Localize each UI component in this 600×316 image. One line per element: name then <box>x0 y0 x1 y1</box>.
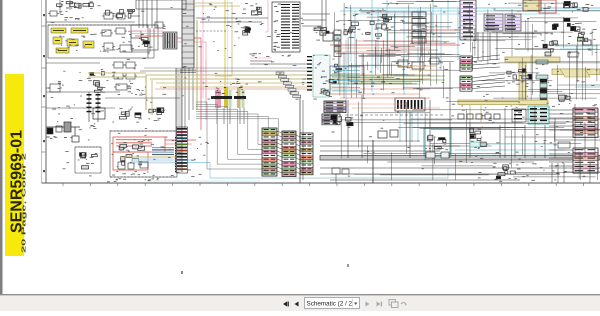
red wires J right <box>165 140 196 144</box>
orange bits <box>398 66 442 70</box>
dashed box J <box>110 131 177 177</box>
dashed box B <box>48 25 148 58</box>
pin row T4 <box>485 25 516 30</box>
stack block P4 <box>0 0 1 1</box>
toolbar next-view button <box>401 303 407 306</box>
dark bundle wires <box>140 68 330 71</box>
grey bus Y <box>320 156 600 161</box>
comps Z5 <box>331 115 398 138</box>
battery chain G <box>46 122 80 142</box>
scatter text right-mid <box>462 102 598 180</box>
cyan top bus <box>340 8 600 14</box>
toolbar last-page button <box>377 302 383 307</box>
column Q <box>177 127 188 173</box>
cluster Z4 <box>493 163 519 181</box>
stack W3 <box>460 56 472 71</box>
window left frame <box>0 0 3 295</box>
box C2 <box>131 25 158 50</box>
dash link <box>196 30 226 32</box>
left extra marks <box>51 96 174 177</box>
vert x300 <box>300 98 303 183</box>
cascade N2 <box>276 72 301 98</box>
right edge wires <box>555 130 600 172</box>
box H3 <box>89 108 105 128</box>
tan bus V2 <box>552 69 600 77</box>
misc S comps <box>343 20 441 69</box>
mesh S2 <box>359 40 415 76</box>
comp row X2 <box>458 114 500 119</box>
purple block ZP2 <box>322 114 340 125</box>
footer mark 2 <box>347 264 349 267</box>
teal bits bus <box>470 142 570 148</box>
khaki block U1 <box>523 0 541 11</box>
fan W5 <box>472 55 505 89</box>
purple block T3 <box>505 14 521 31</box>
pink pair left of N <box>250 53 272 61</box>
scatter text left <box>51 5 173 129</box>
cyan wire R <box>150 168 448 181</box>
teal box X1 <box>512 106 549 124</box>
striped stack Z2 <box>573 148 598 173</box>
pink vertical c1 <box>205 60 207 120</box>
pink vertical c2 <box>265 0 268 32</box>
tan bus X <box>458 100 548 122</box>
wires Z6 <box>549 110 573 166</box>
stack wires <box>277 131 282 173</box>
verticals to bus <box>348 62 545 158</box>
labels under J <box>107 178 158 182</box>
pink wires to barrel <box>130 31 163 36</box>
toolbar prev-page button <box>295 302 299 307</box>
vertical chain H2 <box>96 92 101 122</box>
comps W7 <box>558 95 572 105</box>
svg-text:20 Page, Color 2: 20 Page, Color 2 <box>21 153 27 253</box>
border letters <box>43 14 45 172</box>
verticals W6 <box>478 32 497 60</box>
toolbar next-page button <box>366 302 370 307</box>
page border left <box>42 0 47 183</box>
ladder drop wires <box>185 68 193 128</box>
pin rows T1b <box>463 2 473 37</box>
mesh S <box>334 2 460 99</box>
footer mark 1 <box>181 271 183 274</box>
cluster C relay row <box>106 9 145 18</box>
page border bottom <box>42 183 600 186</box>
left extra wires <box>46 0 180 108</box>
toolbar background <box>0 294 600 311</box>
labels row center <box>216 79 241 88</box>
label text 20 Page Color 2 <box>21 153 27 253</box>
tan bus bundle <box>88 73 430 115</box>
cyan rows J3 <box>132 159 172 164</box>
speckle dense band <box>332 104 591 179</box>
cyan drops <box>400 112 418 142</box>
pin column N3 <box>307 55 330 97</box>
cluster N5 <box>320 64 345 97</box>
comps UR <box>568 29 591 57</box>
olive vertical <box>196 20 198 110</box>
component group B2 <box>100 28 144 52</box>
teal blocks <box>536 60 548 79</box>
purple block ZP1 <box>324 101 346 113</box>
toolbar first-page button <box>283 302 289 307</box>
cluster U3 <box>563 1 589 12</box>
comps J low <box>116 162 148 175</box>
tan row J <box>120 156 175 158</box>
bar group drops <box>217 108 244 124</box>
dark pin column J <box>175 137 180 172</box>
wire fan P <box>196 102 278 169</box>
cyan wires J4 <box>172 160 210 178</box>
vertical x373 <box>372 140 374 183</box>
red wire from barrel <box>177 38 206 130</box>
dashed line AB2 <box>345 114 445 116</box>
component column D <box>112 62 137 92</box>
scatter text top <box>332 0 597 101</box>
bus drops right <box>552 163 590 183</box>
red parallel wire <box>155 88 430 90</box>
component F <box>46 81 62 92</box>
tan vertical band <box>519 62 526 105</box>
top verticals <box>136 0 186 28</box>
cluster W1 <box>507 68 532 84</box>
toolbar page dropdown <box>305 298 360 309</box>
vertical chain H1 <box>87 92 92 122</box>
green bus S <box>330 76 445 84</box>
stack right wires <box>296 135 300 174</box>
cyan right wires <box>555 46 600 87</box>
cyan verticals <box>346 0 458 108</box>
cluster W2 <box>541 40 559 56</box>
toolbar prev-view button <box>389 300 398 308</box>
pink vertical c3 <box>202 0 204 98</box>
purple table T1 <box>460 0 476 40</box>
tan bus V1 <box>505 57 560 62</box>
svg-text:Schematic (2 / 2: Schematic (2 / 2 <box>307 300 353 307</box>
cluster E <box>87 72 105 93</box>
wire row F2 <box>46 89 166 95</box>
mesh R1 <box>461 3 600 100</box>
N side wires <box>302 14 330 26</box>
cyan pin cluster S3 <box>330 66 392 94</box>
cluster I1 <box>119 108 141 119</box>
wire pair center <box>180 70 196 73</box>
yellow wire <box>225 0 228 108</box>
horiz wires Y2 <box>320 141 600 180</box>
barrel connector <box>163 32 177 49</box>
wire across N <box>250 63 310 65</box>
top-center labels <box>196 3 268 27</box>
top tan wires <box>193 3 240 6</box>
yellow media label band <box>5 74 24 256</box>
left verticals ext <box>131 28 154 58</box>
cluster X3 <box>470 128 487 148</box>
colored bar group O2 <box>234 87 246 108</box>
connector table N <box>272 2 300 52</box>
connector cluster A1 <box>57 1 94 8</box>
component near top <box>153 22 165 28</box>
tan wire v1 <box>215 2 232 76</box>
stack block P3 <box>300 133 313 175</box>
striped stack Z1 <box>573 108 598 137</box>
comps under bus <box>332 168 349 183</box>
grey band below ladder <box>176 68 182 172</box>
label text SENR5969-01 <box>9 130 26 233</box>
stack W4 <box>460 76 472 91</box>
red box U2 <box>539 0 556 13</box>
red module J1a <box>113 137 165 152</box>
small dashed box G2 <box>75 147 101 173</box>
top-center comps <box>251 7 261 15</box>
purple block T2 <box>484 14 503 31</box>
teal pin column <box>540 78 547 103</box>
colored bar group O1 <box>211 87 232 108</box>
cluster I2 <box>148 108 165 121</box>
cluster U4 <box>552 18 582 32</box>
chain S2 <box>412 12 426 45</box>
component A2 <box>48 11 67 16</box>
comps on bus <box>426 148 449 158</box>
scatter text mid <box>182 9 328 100</box>
striped stack P1 <box>262 128 277 176</box>
label row A3 <box>64 17 83 20</box>
cyan wire Y3 <box>430 150 600 154</box>
red bus S <box>330 30 470 52</box>
cluster S1 <box>366 13 392 39</box>
cyan box Z3 <box>424 128 451 156</box>
mesh R3 <box>340 101 600 180</box>
grey ladder bus <box>182 0 194 68</box>
bluegrey rows J2 <box>152 147 174 155</box>
striped stack P2 <box>282 131 296 177</box>
cluster M <box>235 21 251 39</box>
chain N4 <box>334 30 341 57</box>
red module J1b <box>113 152 148 170</box>
yellow switch group B1 <box>51 28 94 53</box>
comps right of N <box>314 0 333 41</box>
hatched pins AB <box>395 98 425 111</box>
red lines mid <box>330 94 440 108</box>
scatter text lower-left <box>111 133 209 180</box>
component A4 <box>102 13 140 19</box>
right verticals low <box>505 104 595 158</box>
